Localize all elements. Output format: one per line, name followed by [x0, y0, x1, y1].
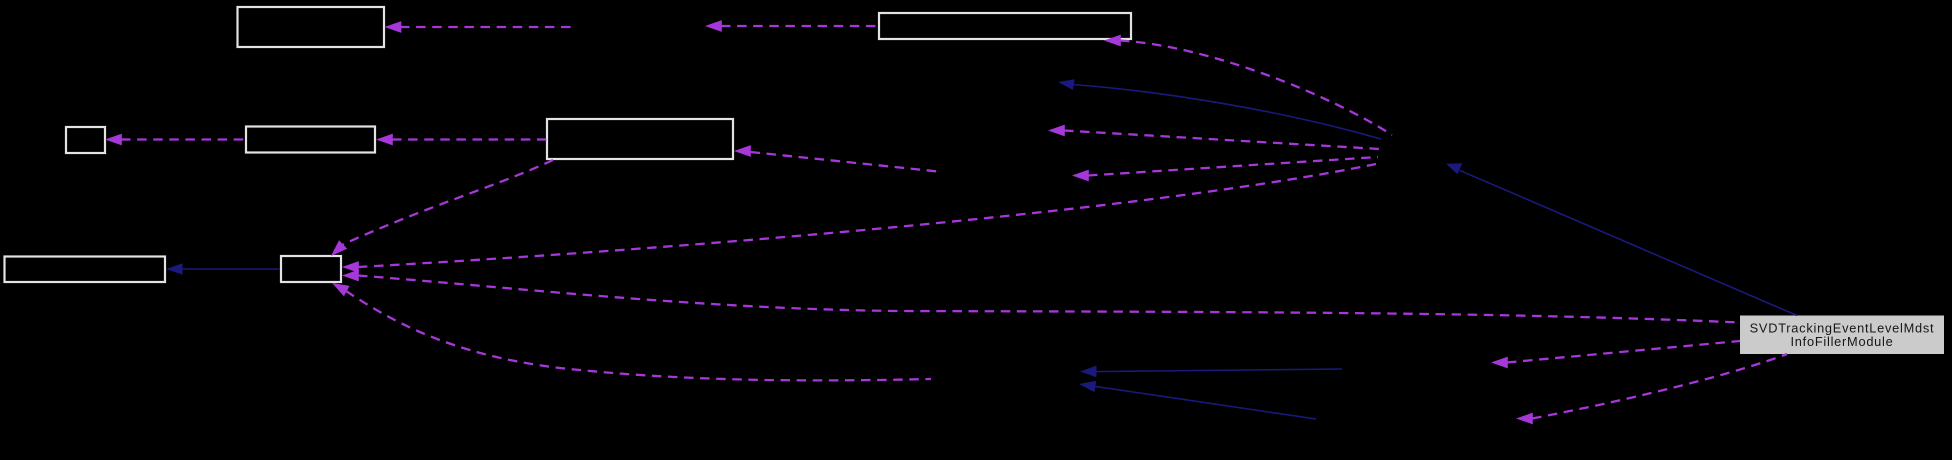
arrowhead E3 at box E — [1104, 35, 1121, 47]
arrowhead E10 at box G bottom-right — [332, 283, 350, 296]
edge E11: box C -> box B — [121, 138, 246, 140]
node box E (top middle wide) — [879, 13, 1131, 39]
arrowhead E12 at box C — [376, 134, 393, 146]
arrowhead M4 — [1491, 357, 1508, 369]
arrowhead E5 — [1072, 170, 1089, 182]
arrowhead B1 — [1058, 79, 1075, 90]
arrowhead E6 at box D — [734, 145, 751, 157]
node box B (small far left) — [66, 127, 105, 153]
node box F (bottom left wide) — [5, 257, 166, 283]
arrowhead E8 at box G right — [342, 261, 359, 273]
arrowhead B5 — [1079, 381, 1096, 392]
svg-text:InfoFillerModule: InfoFillerModule — [1790, 334, 1893, 349]
edge E12: box D -> box C — [392, 138, 547, 140]
edge E7: box D bottom-left -> box G top (curved) — [343, 160, 553, 244]
arrowhead E1 at box A — [385, 21, 402, 33]
arrowhead E7 at box G top — [331, 240, 347, 256]
edge E8: hub -> box G right (long curve) — [358, 164, 1376, 267]
magenta arrowheads — [105, 20, 1533, 424]
arrowhead B2 at hub — [1446, 163, 1462, 174]
edge E4: hub -> invisible node M2 — [1064, 131, 1380, 150]
node box G (small, bottom hub) — [281, 256, 341, 282]
edge E10: invisible node -> box G bottom-right (curved) — [346, 291, 931, 380]
edge B4: invisible node -> invisible node X1 — [1095, 369, 1342, 372]
node box C — [246, 127, 375, 153]
edge E2: box E -> invisible node — [721, 25, 878, 27]
arrowhead E11 at box B — [105, 134, 122, 146]
blue arrowheads — [166, 79, 1462, 392]
edge M4: SVD box -> invisible node X2 — [1507, 341, 1740, 363]
arrowhead E2 — [705, 20, 722, 32]
edge E6: invisible node -> box D right — [751, 152, 939, 172]
node box A (top left, empty label) — [238, 7, 385, 47]
edge B5: invisible node X3 -> invisible node X1 — [1094, 386, 1316, 419]
arrowhead E4 — [1048, 125, 1065, 137]
edge B3: box G -> box F — [181, 268, 280, 270]
node box D (two-line, taller) — [547, 119, 733, 159]
edge B1: hub -> invisible node (curved) — [1074, 85, 1381, 139]
edge E1: invisible node -> box A — [400, 26, 574, 28]
arrowhead B4 — [1080, 366, 1097, 378]
node SVDTrackingEventLevelMdstInfoFillerModule (grey filled) — [1740, 316, 1944, 355]
arrowhead M5 — [1516, 413, 1533, 425]
edge M5: SVD box bottom -> invisible node X3 (curved) — [1532, 354, 1787, 419]
edge E3: hub -> box E bottom right (curved) — [1120, 41, 1392, 136]
arrowhead E9 at box G right — [342, 270, 359, 282]
edge B2: SVD box top -> hub — [1460, 170, 1797, 315]
arrowhead B3 at box F — [166, 263, 183, 275]
edge E9: SVD box -> box G right (long sagging curve) — [358, 276, 1740, 323]
edge E5: hub -> invisible node M3 — [1088, 157, 1378, 176]
